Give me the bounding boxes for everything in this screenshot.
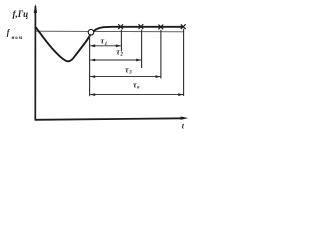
x axis arrowhead <box>181 117 189 120</box>
extension below circle <box>89 35 91 96</box>
right corner extension vertical <box>183 29 185 96</box>
extension below x1 <box>120 30 122 52</box>
svg-text:t: t <box>182 121 185 130</box>
extension below x2 <box>141 30 143 68</box>
tau3 dimension line <box>90 75 161 78</box>
tau2 dimension line <box>90 59 141 62</box>
tau_v dimension line <box>90 93 183 96</box>
svg-text:f,Гц: f,Гц <box>13 9 29 19</box>
y axis arrowhead <box>34 4 37 13</box>
frequency curve <box>36 27 183 61</box>
circle marker on fnom line <box>88 29 94 35</box>
f nom level thin line <box>36 30 184 33</box>
svg-text:3: 3 <box>128 70 132 76</box>
svg-text:2: 2 <box>119 51 123 57</box>
svg-text:1: 1 <box>105 41 108 47</box>
x axis <box>35 118 182 120</box>
x mark 1 <box>118 24 123 29</box>
x mark 4 <box>181 24 186 29</box>
x mark 3 <box>158 25 163 30</box>
extension below x3 <box>160 30 162 79</box>
svg-text:ном: ном <box>12 36 23 41</box>
y axis <box>34 6 36 120</box>
svg-text:f: f <box>7 28 11 37</box>
tau1 dimension line <box>90 44 121 47</box>
svg-text:в: в <box>137 85 140 91</box>
x mark 2 <box>139 24 144 29</box>
